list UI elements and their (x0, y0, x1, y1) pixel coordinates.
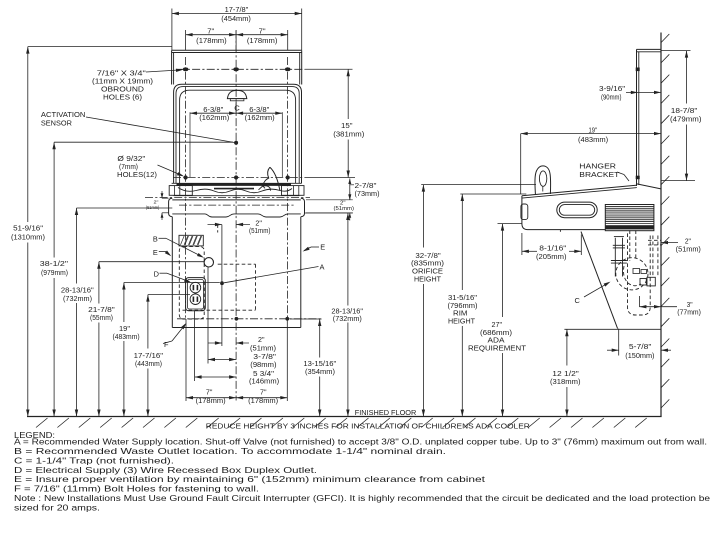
svg-text:3": 3" (687, 302, 693, 309)
apron top line (172, 199, 300, 201)
svg-text:15": 15" (341, 123, 353, 130)
svg-text:(55mm): (55mm) (90, 315, 113, 322)
dim 32-7/8 orifice height (411, 185, 536, 417)
svg-text:HOLES (6): HOLES (6) (103, 94, 142, 101)
waste outlet circle B (204, 258, 213, 267)
dim 6-3/8 (162mm) pair (190, 105, 282, 177)
top plate (side view) (637, 49, 662, 186)
svg-text:E = Insure proper ventilation: E = Insure proper ventilation by maintai… (14, 475, 486, 484)
mounting line (dash-dot) at bracket top (145, 196, 310, 198)
svg-text:HOLES(12): HOLES(12) (117, 172, 157, 179)
centerline right hole column (dash-dot) (287, 57, 289, 319)
label C with leader to trap (575, 282, 611, 305)
bubbler spout (front view) (259, 167, 280, 190)
svg-text:5-7/8": 5-7/8" (629, 344, 652, 351)
svg-text:(479mm): (479mm) (670, 117, 702, 124)
svg-text:21-7/8": 21-7/8" (88, 307, 115, 314)
svg-text:Note : New Installations Must: Note : New Installations Must Use Ground… (14, 494, 711, 503)
svg-text:(835mm): (835mm) (411, 261, 444, 268)
legend block (14, 430, 711, 513)
dim 8-1/16 (205mm) (522, 233, 581, 261)
svg-text:D: D (154, 270, 159, 279)
svg-text:(796mm): (796mm) (448, 303, 478, 310)
extension line sensor to 38-1/2 dim (54, 141, 233, 143)
extension lines below cabinet (186, 267, 287, 401)
extension line outlet D to 17-7/16 dim (148, 294, 190, 296)
label D with leader to outlet (154, 270, 192, 283)
dim 18-7/8 (479mm) (661, 51, 702, 181)
P-trap dashed (616, 258, 648, 290)
svg-text:(381mm): (381mm) (333, 132, 364, 139)
dim 19 (483mm) side (521, 127, 661, 194)
cooler hood / front shroud (front view) (174, 84, 302, 183)
svg-text:(51mm): (51mm) (146, 205, 160, 210)
svg-text:31-5/16": 31-5/16" (448, 295, 478, 302)
water supply node A dot and extension (220, 225, 224, 328)
centerline through top holes (dash-dot) (185, 57, 187, 319)
floor hatching (36, 418, 647, 428)
supply pipe with fittings (side view) (611, 237, 627, 277)
svg-text:(178mm): (178mm) (196, 396, 226, 405)
recessed box dashed outline (179, 247, 204, 319)
svg-text:(1310mm): (1310mm) (11, 235, 45, 242)
svg-text:(150mm): (150mm) (625, 353, 654, 360)
svg-text:17-7/8": 17-7/8" (225, 5, 249, 14)
dim 27 ADA requirement (468, 224, 527, 417)
svg-text:(98mm): (98mm) (250, 362, 276, 369)
label E left with leader (153, 248, 171, 257)
svg-text:FINISHED FLOOR: FINISHED FLOOR (355, 410, 417, 417)
dim 13-15/16 (354mm) (290, 319, 337, 417)
dim 28-13/16 (732mm) left (61, 208, 94, 417)
cooler top deck (side view) (522, 185, 637, 198)
label ACTIVATION SENSOR with leader (41, 110, 235, 143)
bolt hole row F (dash-dot) with holes (177, 317, 322, 321)
bubbler (side view) (535, 166, 551, 194)
svg-text:2": 2" (258, 337, 265, 344)
dim 38-1/2 (979mm) (40, 142, 69, 416)
svg-text:(732mm): (732mm) (333, 316, 362, 323)
dim 3-9/16 (90mm) (599, 86, 661, 101)
drain pipe dashed (side view) (630, 230, 636, 261)
svg-text:38-1/2": 38-1/2" (40, 261, 69, 268)
svg-text:13-15/16": 13-15/16" (303, 361, 336, 368)
dim 3 (77mm) (639, 296, 700, 316)
svg-text:Ø 9/32": Ø 9/32" (117, 156, 146, 163)
left side bump (169, 198, 173, 216)
svg-text:C: C (575, 296, 581, 305)
svg-text:F = 7/16" (11mm) Bolt Holes fo: F = 7/16" (11mm) Bolt Holes for fastenin… (14, 485, 259, 494)
finished floor line (27, 416, 662, 418)
svg-text:(51mm): (51mm) (676, 246, 701, 253)
svg-text:12 1/2": 12 1/2" (552, 371, 579, 378)
wall hatching (661, 34, 669, 408)
svg-text:C = 1-1/4" Trap (not furnished: C = 1-1/4" Trap (not furnished). (14, 456, 174, 465)
svg-text:(162mm): (162mm) (245, 113, 275, 122)
svg-text:7": 7" (207, 27, 214, 36)
svg-text:(732mm): (732mm) (63, 296, 92, 303)
svg-text:28-13/16": 28-13/16" (331, 308, 363, 315)
svg-text:RIM: RIM (453, 311, 468, 318)
extension line rim to left 28-13/16 dim (77, 207, 173, 209)
svg-text:E: E (153, 248, 158, 257)
svg-text:(205mm): (205mm) (536, 254, 567, 261)
svg-text:(483mm): (483mm) (578, 137, 608, 144)
svg-text:REDUCE HEIGHT BY 3 INCHES FOR: REDUCE HEIGHT BY 3 INCHES FOR INSTALLATI… (206, 423, 530, 430)
dim 2 (51mm) waste stub (661, 239, 701, 254)
hanger bracket (side view) (637, 184, 661, 189)
dim 5 3/4 (146mm) (195, 371, 280, 386)
svg-text:sized for 20 amps.: sized for 20 amps. (14, 503, 100, 512)
svg-text:BRACKET: BRACKET (579, 170, 620, 179)
svg-text:(483mm): (483mm) (113, 334, 140, 341)
svg-text:(162mm): (162mm) (199, 113, 229, 122)
svg-text:27": 27" (492, 322, 503, 329)
apron mid dash-dot line (179, 204, 295, 206)
svg-text:7": 7" (259, 27, 266, 36)
svg-text:(51mm): (51mm) (334, 206, 355, 212)
svg-text:28-13/16": 28-13/16" (61, 288, 94, 295)
svg-text:8-1/16": 8-1/16" (539, 246, 567, 253)
right side bump (301, 198, 305, 216)
svg-text:B: B (153, 234, 158, 243)
svg-text:(11mm X 19mm): (11mm X 19mm) (92, 78, 153, 85)
svg-text:(686mm): (686mm) (480, 330, 512, 337)
svg-text:(979mm): (979mm) (41, 270, 68, 277)
svg-text:HEIGHT: HEIGHT (414, 276, 442, 283)
cabinet front face (side view) (521, 196, 606, 230)
basin water scallops (174, 188, 300, 196)
side oval slot (557, 202, 597, 218)
right rim bracket (282, 186, 305, 196)
svg-text:(454mm): (454mm) (221, 14, 251, 23)
svg-text:A: A (320, 262, 325, 271)
dim 3-7/8 (98mm) (208, 354, 277, 369)
svg-text:2-7/8": 2-7/8" (355, 183, 378, 190)
svg-text:(77mm): (77mm) (677, 309, 701, 316)
svg-text:ADA: ADA (488, 338, 505, 345)
svg-text:SENSOR: SENSOR (41, 118, 72, 127)
svg-text:17-7/16": 17-7/16" (134, 353, 164, 360)
svg-text:32-7/8": 32-7/8" (415, 253, 441, 260)
dim 12 1/2 (318mm) (550, 329, 581, 416)
svg-text:C: C (234, 104, 240, 113)
svg-text:B = Recommended Waste Outlet l: B = Recommended Waste Outlet location. T… (14, 447, 446, 456)
svg-text:(73mm): (73mm) (355, 191, 380, 198)
dim 2 (51mm) left side bracket (146, 191, 169, 220)
waste arm dashed to wall (648, 236, 661, 276)
svg-text:F: F (164, 340, 169, 349)
dim 2 (51mm) top near A node (208, 221, 271, 235)
clearance dashed box (183, 224, 256, 310)
svg-text:19": 19" (589, 127, 598, 134)
svg-text:A = Recommended Water Supply l: A = Recommended Water Supply location. S… (14, 438, 707, 447)
dim 17-7/8 (454mm) overall width (172, 5, 302, 50)
svg-text:HEIGHT: HEIGHT (448, 318, 476, 325)
svg-text:(178mm): (178mm) (248, 396, 278, 405)
basin rim band (172, 183, 302, 184)
dim 19 (483mm) (113, 283, 140, 417)
dim 2-7/8 (73mm) (348, 179, 379, 200)
svg-text:(7mm): (7mm) (119, 164, 138, 171)
svg-text:(51mm): (51mm) (250, 345, 276, 352)
electrical knockout box with hatching (179, 235, 203, 246)
obround mounting holes (3) on plate (183, 68, 291, 72)
extension line supply A to 19 dim (124, 282, 220, 284)
label 7/16 x 3/4 obround holes with leader (92, 69, 183, 102)
svg-text:REQUIREMENT: REQUIREMENT (468, 345, 527, 352)
dim 7 inch left top (186, 27, 288, 51)
left rim bracket (169, 186, 192, 196)
dim 28-13/16 (732mm) right (305, 213, 364, 417)
bubbler dome (front view) (227, 90, 246, 100)
dim 15 (381mm) (333, 69, 364, 177)
label E right with leader (303, 243, 326, 252)
dim 2 (51mm) bottom (208, 337, 276, 352)
svg-text:5 3/4": 5 3/4" (253, 371, 275, 378)
label F with leader to bolt hole (163, 323, 187, 349)
extension line top of unit to 51-9/16 dim (28, 46, 172, 48)
svg-text:(443mm): (443mm) (135, 361, 162, 368)
svg-text:19": 19" (119, 326, 131, 333)
ventilation grille (side view) (605, 205, 654, 231)
dim 2 (51mm) right side bracket (306, 192, 354, 221)
trap union fittings (633, 269, 655, 286)
lower skirt diagonal (side view) (560, 230, 617, 329)
dim 31-5/16 rim height (448, 194, 527, 417)
svg-text:(178mm): (178mm) (247, 36, 278, 45)
extension line waste B to 21-7/8 dim (99, 261, 204, 263)
svg-text:OBROUND: OBROUND (101, 86, 144, 93)
svg-text:(354mm): (354mm) (305, 369, 335, 376)
apron sculpted bottom edge (172, 214, 300, 217)
svg-text:2": 2" (154, 200, 159, 205)
horizontal centerline bottom hole row (dash-dot) (173, 177, 355, 179)
dim 7 inch bottom pair (186, 387, 287, 404)
svg-text:(51mm): (51mm) (249, 228, 271, 235)
wall mounting plate (front view) (172, 50, 302, 84)
svg-text:2": 2" (255, 221, 262, 228)
svg-text:(90mm): (90mm) (601, 95, 622, 102)
trap cover dashed outline (628, 233, 651, 315)
lower cabinet outline (front view) (172, 217, 300, 328)
dim 5-7/8 (150mm) (607, 329, 671, 360)
label A with leader to supply node (224, 262, 325, 283)
mounting hole marks on plate (side) (636, 68, 640, 180)
dim 51-9/16 (1310mm) (11, 47, 45, 417)
label B with leader to waste outlet (153, 234, 204, 257)
svg-text:51-9/16": 51-9/16" (13, 226, 44, 233)
centerline symbol C (234, 102, 240, 115)
label HANGER BRACKET with leader (579, 162, 629, 181)
dim 17-7/16 (443mm) (134, 295, 164, 417)
svg-text:3-7/8": 3-7/8" (253, 354, 276, 361)
svg-text:E: E (320, 243, 325, 252)
horizontal centerline top hole row (dash-dot) (178, 68, 353, 70)
label dia 9/32 holes with leader (117, 156, 184, 179)
dim 21-7/8 (55mm) (88, 262, 115, 417)
wall line (side view) (660, 33, 662, 417)
skirt bottom line / 12-1/2 extension (564, 328, 661, 330)
svg-text:18-7/8": 18-7/8" (671, 108, 698, 115)
svg-text:ORIFICE: ORIFICE (412, 269, 443, 276)
svg-text:2": 2" (685, 239, 691, 246)
svg-text:7/16" X 3/4": 7/16" X 3/4" (97, 70, 147, 77)
svg-text:D = Electrical Supply (3) Wire: D = Electrical Supply (3) Wire Recessed … (14, 466, 317, 475)
svg-text:(318mm): (318mm) (550, 379, 581, 386)
activation sensor dot (234, 141, 238, 145)
rim holes (3) at basin (184, 175, 290, 179)
vertical centerline of unit (dash-dot) (235, 31, 237, 401)
duplex outlet D (186, 278, 206, 311)
svg-text:(146mm): (146mm) (249, 379, 279, 386)
svg-text:3-9/16": 3-9/16" (599, 86, 626, 93)
svg-text:(178mm): (178mm) (196, 36, 227, 45)
